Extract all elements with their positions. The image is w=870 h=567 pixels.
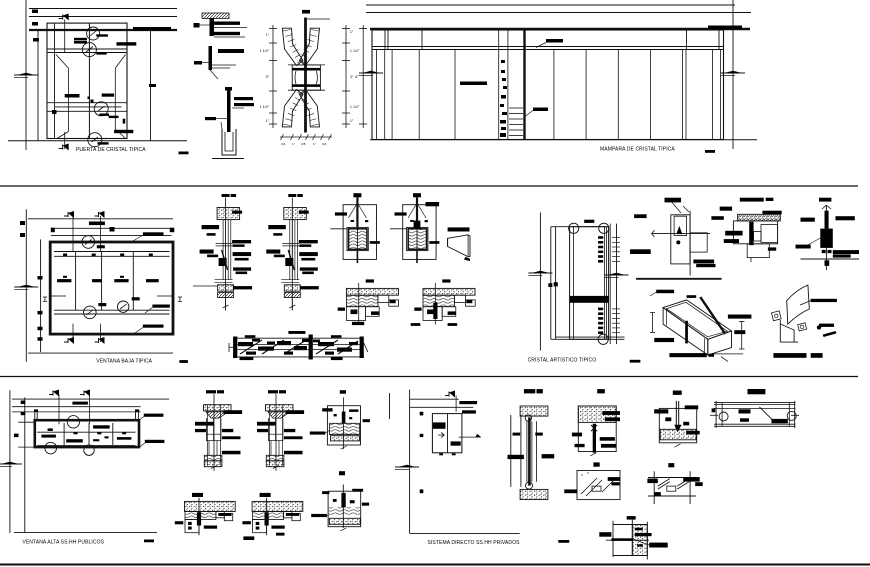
cristal artistico: bottom lines <box>556 336 625 338</box>
sill section: step boxes right <box>378 295 389 302</box>
sill section at x=358.7: title <box>366 279 374 282</box>
svg-text:1″: 1″ <box>292 142 295 146</box>
C5 interior diagonals <box>581 478 597 494</box>
mampara door center post <box>523 29 525 140</box>
D7 bolt body <box>825 211 829 229</box>
B3 right dash <box>363 419 370 422</box>
floor shoe ground <box>212 158 244 160</box>
sill section: center axis <box>358 283 360 325</box>
section C5: title <box>593 462 599 466</box>
b-section mid boxes <box>267 418 269 441</box>
X mullion: center axis <box>304 18 307 133</box>
ventana baja: bottom band dash <box>143 325 164 328</box>
tall section: glazing clip blob <box>219 258 227 266</box>
C2 left dashes <box>572 433 582 437</box>
D5 boxes <box>671 215 690 264</box>
D8 left dim bracket <box>652 313 654 333</box>
clamp section: black blob on shaft <box>414 221 421 229</box>
door panel bevels left <box>56 55 68 69</box>
X mullion: right dim chain <box>345 25 347 128</box>
B6 dotted band <box>329 518 360 524</box>
D6 labels left <box>725 231 742 236</box>
clamp section at x=417.0: title <box>413 193 421 197</box>
sistema directo: divider tick <box>389 393 391 419</box>
clamp section: outer box <box>403 205 436 260</box>
ventana baja: pane mullions <box>75 252 77 311</box>
bottom sheet border <box>0 564 870 566</box>
door label bars <box>74 38 87 41</box>
S8 left arrow tick <box>229 346 233 348</box>
ventana baja: callout circle bottom mid <box>118 301 129 312</box>
b-sill right step boxes <box>216 512 224 518</box>
X mullion: top-right arm <box>300 28 320 65</box>
C7 dotted column <box>632 525 647 556</box>
tall section: right label bars <box>232 211 242 214</box>
clamp section: bolt shaft <box>416 197 418 227</box>
cristal artistico: top dim line <box>551 226 609 228</box>
X mullion: left dim chain <box>272 25 274 128</box>
tall section: mullion lines <box>289 220 291 280</box>
X mullion: bottom-right arm <box>300 90 320 127</box>
C5 left bar <box>564 489 577 493</box>
C4 band lines <box>714 401 795 403</box>
tall section: left label bars <box>268 225 286 229</box>
door frame inner verticals <box>54 23 56 138</box>
b-sill at x=199.0: title <box>192 493 203 497</box>
tall section: center axis <box>225 198 227 311</box>
X mullion: arm rungs <box>283 30 291 32</box>
C2 top dotted band <box>578 406 616 422</box>
cristal artistico: panel inner verticals <box>573 227 575 340</box>
D6 labels top <box>762 211 781 215</box>
B6 wavy band <box>329 507 360 514</box>
svg-text:3/8: 3/8 <box>301 142 306 146</box>
door scale dash <box>179 152 189 155</box>
b-sill dotted band <box>185 501 236 511</box>
C6 box <box>653 471 655 504</box>
ventana alta: interior marks <box>48 428 53 431</box>
b-sill left box <box>253 520 267 533</box>
clamp section: left line and dash <box>390 228 407 230</box>
sill section: dashes <box>338 308 345 311</box>
sistema directo: bottom line <box>410 532 520 534</box>
ventana baja: cut marks bottom <box>64 341 68 343</box>
B3 top dashes <box>322 408 332 411</box>
clamp section: extra right top dash <box>426 202 440 206</box>
door drawing: left dimension line <box>25 0 27 150</box>
door callout circle bottom <box>88 133 102 147</box>
ventana alta: left dim extensions <box>18 421 35 423</box>
jamb detail top: hatched head <box>202 13 229 19</box>
separator line between middle and bottom band <box>0 376 858 378</box>
D8 left face <box>663 308 708 355</box>
C3 box <box>659 408 696 442</box>
door panel bevels right <box>115 55 125 69</box>
C3 right dash <box>686 431 700 435</box>
b-section top hatched box <box>266 405 294 411</box>
ventana baja: outer thick frame <box>50 242 173 334</box>
ventana baja: pane top ticks <box>63 254 67 257</box>
cristal artistico: bottom circle <box>598 334 608 344</box>
sistema directo: right dashes <box>459 401 477 404</box>
C3 mid dashes <box>665 417 671 421</box>
B3 axis <box>343 397 345 449</box>
b-section left bars <box>257 422 276 426</box>
D7 base line <box>801 258 860 260</box>
mampara leader label 2 <box>533 108 548 112</box>
X mullion: top-left arm <box>282 28 303 65</box>
sistema directo: cut mark <box>445 395 449 397</box>
tall section: head box with hatch <box>217 208 240 220</box>
C7 thick black band <box>611 538 633 541</box>
b-sill wavy band <box>185 512 216 520</box>
clamp section: bolt shaft <box>356 197 358 227</box>
cristal artistico: right mullion lines <box>605 227 607 340</box>
cristal artistico: panel <box>570 227 609 340</box>
b-section right bars <box>222 429 233 432</box>
D5 underline <box>636 278 722 280</box>
svg-text:VENTANA BAJA TIPICA: VENTANA BAJA TIPICA <box>96 359 152 365</box>
C5 box <box>577 471 620 500</box>
mampara floor line <box>370 139 757 141</box>
C2 bolt <box>593 424 596 453</box>
sistema directo: dim squares <box>420 412 424 416</box>
svg-text:1″: 1″ <box>313 142 316 146</box>
C2 right dashes <box>602 411 620 415</box>
tall section: sill lines <box>215 279 233 281</box>
b-sill bottom dash <box>204 526 217 529</box>
D9 screw <box>817 325 821 329</box>
tall section: center axis <box>291 198 293 311</box>
clamp section: leader V lines <box>348 203 357 218</box>
door drawing: small dim squares <box>32 10 38 14</box>
D6 side boxes <box>761 225 778 243</box>
door frame outer <box>47 23 127 138</box>
svg-text:PUERTA DE CRISTAL TIPICA: PUERTA DE CRISTAL TIPICA <box>76 147 146 153</box>
b-sill wavy band <box>253 512 284 520</box>
C1 top circle <box>525 415 531 421</box>
ventana alta: cut marks <box>49 394 53 396</box>
D8 right dim bracket <box>741 321 743 349</box>
D5 leader <box>672 202 681 213</box>
svg-text:CRISTAL ARTISTICO TIPICO: CRISTAL ARTISTICO TIPICO <box>528 358 597 364</box>
mampara glazing mullions <box>375 50 377 140</box>
b-section right bar top <box>286 410 305 414</box>
ventana alta: inner lines <box>37 431 135 433</box>
ventana alta: window thick frame <box>35 420 139 447</box>
D8 black vertical bar <box>685 321 688 344</box>
tall section: sill lines <box>281 279 299 281</box>
svg-text:SISTEMA DIRECTO SS.HH PRIVADOS: SISTEMA DIRECTO SS.HH PRIVADOS <box>428 540 521 546</box>
sistema directo: window box <box>432 414 462 453</box>
svg-text:1 1/2″: 1 1/2″ <box>260 105 270 109</box>
ventana baja: scale dash <box>179 360 188 363</box>
B3 dotted band <box>331 436 360 441</box>
b-section lower verticals <box>270 441 272 455</box>
b-section side guide verticals <box>268 405 270 466</box>
C7 vertical grid lines <box>612 521 614 557</box>
ventana baja: inner glazing band <box>54 251 170 253</box>
door lock small marks <box>88 97 91 100</box>
ventana baja: small dashes near circles <box>97 245 105 248</box>
mampara leader label 1 <box>546 39 563 43</box>
C1 side channel <box>510 415 512 487</box>
D6 bottom box <box>747 244 769 258</box>
sill section: center axis <box>434 283 436 325</box>
ventana alta: dim line 2 <box>24 397 26 533</box>
b-section left bars <box>195 422 214 426</box>
mampara scale dash <box>705 150 715 153</box>
b-sill left dash <box>242 521 251 524</box>
sill section: wavy band <box>423 295 455 307</box>
ventana baja: side datum ticks <box>50 295 66 297</box>
C1 bottom circle <box>526 482 533 489</box>
tall section: glazing clip blob <box>285 258 293 266</box>
svg-text:3/4: 3/4 <box>281 142 286 146</box>
clamp section: outer box <box>343 205 376 260</box>
D6 label right <box>768 247 776 250</box>
ventana baja: top lines <box>28 218 173 220</box>
section C3: title <box>673 391 682 395</box>
ventana baja: second dim line <box>40 239 42 352</box>
C1 side tabs <box>513 433 521 436</box>
b-section lower verticals <box>208 441 210 455</box>
door leaf top rails <box>47 48 127 50</box>
D9 base support <box>779 320 781 342</box>
sill section: wavy band <box>346 295 378 307</box>
door callout circle 2 <box>82 43 96 57</box>
b-sill at x=266.6: title <box>260 493 271 497</box>
mampara frame <box>372 30 724 140</box>
S8 center mullion <box>309 335 313 360</box>
D8 labels <box>656 290 674 294</box>
ventana baja: right leader dash <box>152 305 169 308</box>
D9 title bars <box>773 353 806 358</box>
b-section bottom hatch box <box>204 455 222 461</box>
C6 interior <box>658 479 670 487</box>
D7 labels <box>836 216 855 220</box>
sill section: top dotted band <box>346 288 398 295</box>
door callout circle 3 <box>94 102 108 116</box>
section C2: title <box>597 389 605 393</box>
sistema directo: scale dash <box>558 540 569 543</box>
door callout circle top <box>87 27 100 40</box>
X mullion: bottom-left arm <box>282 90 303 127</box>
B3 left label <box>310 432 326 435</box>
b-sill dotted band <box>252 501 303 511</box>
detail D7: title <box>819 198 831 202</box>
section C1: title <box>524 389 535 393</box>
door head heavy dash <box>133 27 171 31</box>
tall section: right label bars <box>299 211 309 214</box>
door ground line <box>8 140 187 142</box>
svg-text:1 1/2″: 1 1/2″ <box>260 49 270 53</box>
ventana baja: ground line <box>28 352 173 354</box>
clamp section: small marks <box>410 220 414 222</box>
clamp section: small marks <box>351 220 355 222</box>
C4 interior <box>739 409 751 413</box>
D5 vertical axis <box>689 211 691 276</box>
sill section: lower box with clip <box>346 307 365 321</box>
b-sill bottom dash <box>271 526 284 529</box>
door left dim vertical <box>37 30 39 141</box>
section C4: title <box>748 389 766 394</box>
C3 bolt with arrow <box>675 401 677 428</box>
C5 right dashes <box>608 477 621 481</box>
D6 concrete band <box>738 214 781 221</box>
cristal artistico: dim line 1 <box>539 212 541 350</box>
C6 left dashes <box>647 479 657 484</box>
sill section: step boxes right <box>455 295 466 302</box>
b-section at x=214.0: title <box>206 390 216 393</box>
ventana alta: right leader dashes <box>144 414 164 417</box>
section C7: title <box>627 516 636 520</box>
sill section: heavy anchor bar <box>433 303 437 319</box>
D5 horizontal axis <box>652 233 711 235</box>
B6 left bar <box>311 514 327 517</box>
sill section: top dotted band <box>423 288 475 295</box>
detail D9: glass sheet <box>787 285 810 324</box>
tall section: bottom dash <box>233 286 252 289</box>
ventana alta: bottom line <box>14 532 157 534</box>
C4 end circles <box>719 412 728 421</box>
S8 end caps <box>233 337 237 359</box>
detail D8: isometric frame top face <box>663 300 731 339</box>
b-sill left box <box>185 520 199 533</box>
floor shoe channel <box>222 129 236 155</box>
C2 box <box>578 406 616 452</box>
C4 end posts <box>715 401 717 428</box>
C7 label dashes <box>599 532 611 537</box>
tall section: bottom dash <box>300 286 319 289</box>
b-section right bar top <box>224 410 243 414</box>
section S8: plan of window, title bar <box>288 331 305 334</box>
cristal artistico: right tick ladder top <box>598 236 603 239</box>
D5 label dashes <box>634 214 647 218</box>
sill section: dashes <box>414 308 421 311</box>
detail D6: title <box>740 198 764 202</box>
section B3: title <box>340 390 346 394</box>
tall section: mullion lines <box>222 220 224 280</box>
tall section: mid connection lines <box>216 242 233 244</box>
ventana baja: pane arrows <box>63 276 67 278</box>
tall section detail at x=292.3: title <box>288 194 296 197</box>
svg-text:1 1/2″: 1 1/2″ <box>350 105 360 109</box>
C4 left cross ticks <box>710 414 718 416</box>
ventana baja: left dim line <box>25 209 27 361</box>
clamp section: leader V lines <box>408 203 417 218</box>
mampara door ladder detail <box>509 107 523 109</box>
b-sill bolt <box>198 498 200 535</box>
S8 interior black dashes <box>245 335 256 338</box>
D7 center axis <box>825 205 827 270</box>
ventana baja: callout circle bottom left <box>84 306 97 319</box>
C5 dots <box>581 474 582 475</box>
cristal artistico: black band <box>570 296 609 303</box>
clamp section: glass box <box>407 227 428 250</box>
b-section axis <box>275 394 277 471</box>
C3 dotted band <box>660 429 696 440</box>
jamb detail middle <box>209 46 213 70</box>
D5 anchor triangle <box>676 226 682 234</box>
mampara left level mark <box>359 72 383 74</box>
sistema directo: interior marks <box>433 422 446 428</box>
B3 outer box <box>327 406 360 445</box>
cristal artistico: dim line 2 <box>550 227 552 340</box>
sill section: lower box with clip <box>423 307 442 321</box>
clamp section: right dash <box>370 241 380 244</box>
svg-text:VENTANA ALTA SS.HH PUBLICOS: VENTANA ALTA SS.HH PUBLICOS <box>22 540 104 546</box>
door right dim vertical <box>150 30 152 141</box>
door head horizontal lines <box>29 8 177 10</box>
C1 bolt shaft <box>528 417 531 485</box>
b-sill left dash <box>175 521 184 524</box>
clamp section at x=357.4: title <box>353 193 361 197</box>
D9 labels <box>811 299 837 302</box>
tall section: head box with hatch <box>284 208 307 220</box>
sistema directo: top lines <box>410 398 459 400</box>
ventana baja: cut marks top <box>64 215 68 217</box>
B6 right dash <box>362 503 369 506</box>
X mullion: outer 6-inch dim line <box>362 25 364 128</box>
B6 outer box <box>328 491 361 527</box>
tall section: sill box hatch <box>284 285 300 291</box>
D8 title bar <box>669 353 706 357</box>
C7 horizontal grid lines <box>613 524 646 526</box>
sistema directo: right arrow leader <box>459 436 481 438</box>
D6 channel box <box>733 221 777 244</box>
C7 leader <box>633 539 649 545</box>
cristal artistico: top circles <box>569 223 579 233</box>
S8 mid rails <box>236 344 360 346</box>
ventana alta: callout circles <box>67 416 79 428</box>
section C6: title <box>668 463 674 467</box>
C6 right dashes <box>683 477 700 482</box>
ventana alta: dim line 1 <box>9 390 11 533</box>
cristal artistico: dim line 3 <box>555 227 557 340</box>
mampara transom verticals <box>384 30 386 50</box>
section S5: glass corner wedge <box>448 227 470 231</box>
D8 black diagonal strap <box>700 297 725 334</box>
floor shoe detail <box>225 87 232 91</box>
B6 bolt <box>342 485 344 528</box>
svg-text:1 1/2″: 1 1/2″ <box>350 49 360 53</box>
D8 bottom dim <box>713 353 743 355</box>
C1 top dotted box <box>520 406 548 416</box>
D8 end face <box>708 331 732 355</box>
b-section at x=276.0: title <box>268 390 278 393</box>
b-section bottom hatch box <box>266 455 284 461</box>
sistema directo: dim line <box>409 390 411 534</box>
tall section: mid connection lines <box>282 242 299 244</box>
mampara transom <box>372 46 724 48</box>
b-section axis <box>213 394 215 471</box>
X mullion: center box <box>292 65 320 90</box>
section B6: title <box>339 471 345 475</box>
cristal artistico: right tick ladder bottom <box>598 308 603 311</box>
separator line between top and middle band <box>0 185 858 187</box>
ventana baja: bottom rail lines <box>54 309 170 311</box>
clamp section: right dash <box>429 241 439 244</box>
sill section at x=435.3: title <box>442 279 450 282</box>
C3 top dashes <box>654 409 668 413</box>
svg-text:3/4: 3/4 <box>322 142 327 146</box>
door cut mark top <box>59 18 63 20</box>
B6 small marks <box>333 499 337 502</box>
mampara pane label dash <box>460 82 487 86</box>
door mid rail assembly <box>47 102 127 104</box>
ventana baja: pane center bars <box>57 279 71 282</box>
